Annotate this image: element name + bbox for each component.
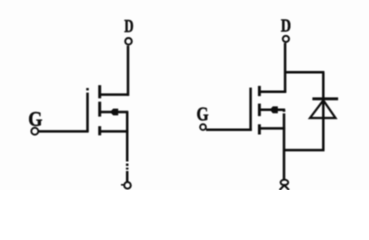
terminal circle S (left) xyxy=(124,182,131,189)
svg-text:D: D xyxy=(281,17,291,36)
wire: source lead vertical with print break (right) xyxy=(283,110,286,112)
terminal S ellipse (right) xyxy=(281,180,289,185)
wire: body stub (left) xyxy=(99,111,128,114)
terminal circle G (left) xyxy=(31,128,38,135)
wire: drain lead vertical (right) xyxy=(284,43,287,93)
wire: branch to diode top xyxy=(285,71,324,74)
MOSFET channel segment body (left) xyxy=(98,102,101,117)
wire: gate lead horizontal (right) xyxy=(206,129,252,132)
arrow on body stub (right, pointing to channel) xyxy=(270,106,278,113)
terminal circle D (right) xyxy=(283,36,289,42)
MOSFET channel segment drain (left) xyxy=(98,85,101,98)
print tick left of S terminal (left) xyxy=(121,184,124,186)
svg-text:G: G xyxy=(197,103,209,125)
wire: source lead vertical with print breaks (left) xyxy=(126,112,129,162)
MOSFET channel segment source (left) xyxy=(98,126,101,135)
wire: gate lead horizontal (left) xyxy=(39,130,89,133)
wire: bottom branch source to diode xyxy=(284,149,324,152)
MOSFET channel segment source (right) xyxy=(258,124,261,134)
wire: drain stub horizontal (right) xyxy=(259,91,286,94)
wire: source stub horizontal (right) xyxy=(259,127,285,130)
diode triangle anode pointing up xyxy=(310,100,336,118)
gate electrode (left) xyxy=(86,88,89,90)
terminal circle D (left) xyxy=(125,38,132,45)
wire: drain lead vertical (left) xyxy=(127,46,130,96)
diode cathode bar xyxy=(312,97,338,100)
wire: drain stub horizontal (left) xyxy=(99,93,129,96)
wire: diode lead vertical (through triangle) xyxy=(322,72,325,151)
arrow on body stub (left, pointing to channel) xyxy=(110,109,118,116)
MOSFET channel segment body (right) xyxy=(258,104,261,117)
partial loop below S terminal clipped at edge (right) xyxy=(280,185,289,190)
wire: source stub horizontal (left) xyxy=(99,130,128,133)
gate electrode (right) xyxy=(249,88,252,131)
svg-text:G: G xyxy=(28,108,42,131)
wire: body stub (right) xyxy=(259,109,285,112)
terminal circle G (right) xyxy=(200,124,206,130)
MOSFET channel segment drain (right) xyxy=(258,86,261,96)
svg-text:D: D xyxy=(124,17,133,37)
